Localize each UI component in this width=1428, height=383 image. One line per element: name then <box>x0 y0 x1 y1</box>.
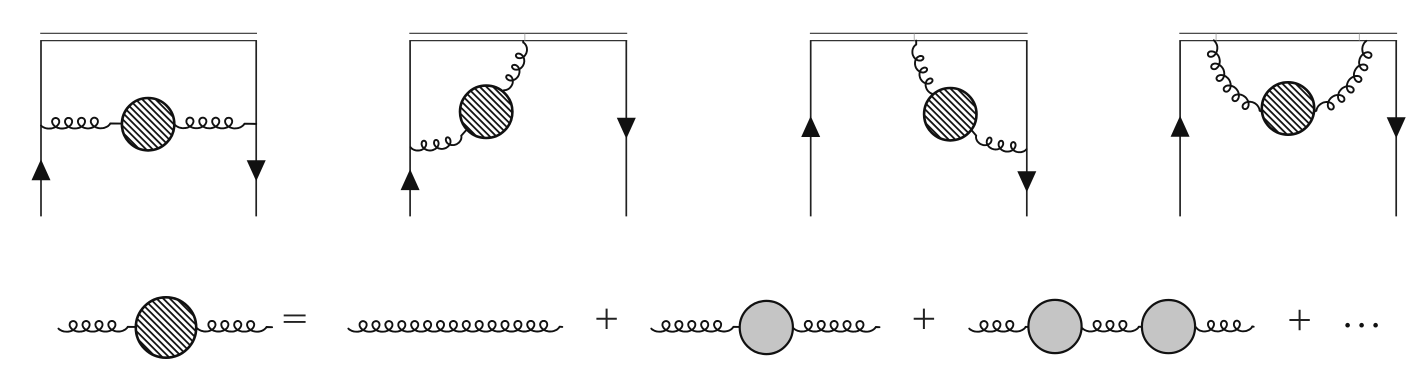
arrow down (right quark, diagram 4) <box>1387 117 1406 138</box>
gluon g2b (blob to wilson line, diagram 2) <box>504 41 527 90</box>
gluon end tick left (diagram 4) <box>1215 34 1217 41</box>
equals sign <box>284 315 306 322</box>
arrow up (left quark, diagram 4) <box>1171 116 1190 137</box>
gluon LHS right (equation) <box>197 321 272 332</box>
gluon g4a (wilson line to blob, left arc, diagram 4) <box>1208 40 1261 111</box>
wilson line W4 (double line, diagram 4) <box>1179 32 1397 34</box>
arrow up (left quark, diagram 1) <box>32 159 51 180</box>
hatched blob B4 (gluon self-energy, diagram 4) <box>1262 82 1314 134</box>
arrow up (left quark, diagram 3) <box>801 116 820 137</box>
antiquark line (right, diagram 2) <box>625 41 627 217</box>
gluon g4b (wilson line to blob, right arc, diagram 4) <box>1315 41 1372 111</box>
quark line (left, diagram 3) <box>810 41 812 217</box>
arrow down (right quark, diagram 2) <box>617 118 636 139</box>
hatched blob B2 (gluon self-energy, diagram 2) <box>460 86 512 138</box>
quark line (left, diagram 1) <box>40 41 42 217</box>
gray blob (one-loop self-energy, second term) <box>740 301 793 354</box>
gluon (second term, right) <box>794 321 880 332</box>
gluon (second term, left) <box>651 321 739 332</box>
quark line (left, diagram 4) <box>1179 41 1181 217</box>
gluon bare propagator (first term) <box>348 321 562 332</box>
arrow down (right quark, diagram 3) <box>1017 171 1036 192</box>
quark line (left, diagram 2) <box>409 41 411 217</box>
hatched blob B3 (gluon self-energy, diagram 3) <box>924 88 976 140</box>
hatched blob B1 (gluon self-energy, diagram 1) <box>122 98 174 150</box>
gluon (third term, left) <box>969 321 1027 332</box>
arrow down (right quark, diagram 1) <box>247 160 266 181</box>
gluon (third term, right) <box>1196 321 1254 332</box>
ellipsis dots <box>1345 323 1350 328</box>
gluon end tick (diagram 2) <box>524 34 526 41</box>
antiquark line (right, diagram 3) <box>1026 41 1028 217</box>
plus sign 1 <box>596 309 616 329</box>
gluon g3a (blob to wilson line, diagram 3) <box>912 41 937 95</box>
gluon LHS left (equation) <box>59 321 136 332</box>
gluon (third term, middle) <box>1082 321 1141 332</box>
wilson line W1 (double line, diagram 1) <box>40 32 257 34</box>
arrow up (left quark, diagram 2) <box>401 169 420 190</box>
gluon g3b (vertical line to blob, diagram 3) <box>971 130 1027 153</box>
antiquark line (right, diagram 4) <box>1395 41 1397 217</box>
gluon end tick (diagram 3) <box>913 34 915 41</box>
gray blob 2 (third term) <box>1142 300 1195 353</box>
plus sign 2 <box>914 309 934 329</box>
hatched blob LHS (full gluon propagator) <box>136 297 196 357</box>
gluon g1b (right, diagram 1) <box>175 118 256 129</box>
antiquark line (right, diagram 1) <box>255 41 257 217</box>
gluon g1a (left, diagram 1) <box>41 118 121 129</box>
gluon g2a (vertical line to blob, diagram 2) <box>410 131 465 151</box>
wilson line W2 (double line, diagram 2) <box>409 32 627 34</box>
gray blob 1 (third term) <box>1028 300 1081 353</box>
gluon end tick right (diagram 4) <box>1358 34 1360 41</box>
plus sign 3 <box>1289 310 1309 330</box>
wilson line W3 (double line, diagram 3) <box>810 32 1028 34</box>
